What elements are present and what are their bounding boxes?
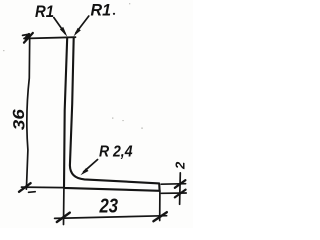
svg-text:R1: R1 (35, 2, 54, 21)
leader line for R2,4 (84, 160, 98, 172)
svg-text:2: 2 (173, 161, 188, 170)
arrowhead of left R1 leader (60, 27, 68, 37)
svg-text:36: 36 (11, 109, 29, 131)
leader line for right R1 (76, 16, 89, 33)
dimension line 36 (vertical, left) (26, 36, 29, 189)
arrow: right tick of 23 dimension (153, 212, 166, 221)
wire: lower extension line of 2 dimension (161, 192, 186, 194)
wire: upper extension line of 2 dimension (161, 183, 185, 186)
arrow: top tick of 36 dimension (24, 33, 33, 43)
wire: left extension line of 23 dimension (63, 189, 65, 225)
dimension line 23 (horizontal, bottom) (55, 216, 167, 219)
svg-text:R 2,4: R 2,4 (99, 144, 133, 161)
arrow: bottom tick of 36 dimension (19, 183, 31, 192)
profile outline (L-angle cross-section) (64, 37, 160, 190)
faint scan specks (3, 3, 143, 129)
arrowhead of R2,4 leader (80, 168, 88, 175)
wire: bottom extension line of 36 dimension (22, 186, 65, 189)
arrow: lower tick of 2 dimension (175, 190, 186, 198)
leader line for left R1 (54, 18, 65, 34)
arrowhead of right R1 leader (74, 28, 81, 37)
svg-text:R1: R1 (91, 1, 112, 20)
dimension line 2 (vertical, right) (179, 173, 182, 205)
arrow: upper tick of 2 dimension (175, 180, 186, 188)
svg-text:23: 23 (99, 196, 118, 218)
wire: right extension line of 23 dimension (159, 191, 161, 221)
dot after right R1 (113, 13, 115, 15)
wire: top extension line of 36 dimension merged with leg top edge (24, 37, 76, 38)
arrow: left tick of 23 dimension (57, 213, 70, 222)
